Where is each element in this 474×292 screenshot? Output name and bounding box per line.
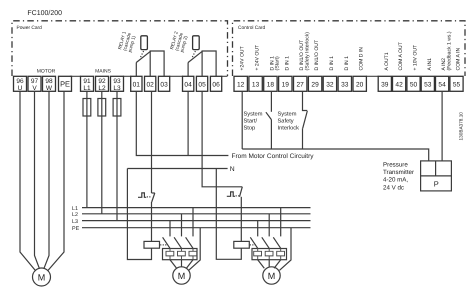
- contactor K2 actuator symbol: [227, 192, 235, 196]
- svg-text:4-20 mA,: 4-20 mA,: [383, 177, 408, 184]
- svg-text:130BA378.10: 130BA378.10: [458, 112, 463, 141]
- node System Safety Interlock label: [278, 112, 300, 132]
- svg-text:(Feedback 1 ws.): (Feedback 1 ws.): [446, 31, 452, 70]
- wire motor U: [20, 91, 36, 271]
- svg-text:D IN1/O OUT: D IN1/O OUT: [314, 40, 320, 71]
- terminal 05: [196, 76, 207, 91]
- terminal 92/L2: [96, 76, 109, 92]
- overload OL1 heater 2: [178, 248, 186, 260]
- svg-text:+24V OUT: +24V OUT: [240, 46, 246, 70]
- wire PE drop to motor M2: [189, 228, 201, 271]
- svg-text:03: 03: [160, 81, 168, 88]
- wire terminal 27 upper: [303, 91, 308, 110]
- relay 2 coil: [193, 36, 200, 50]
- svg-text:97: 97: [31, 78, 39, 85]
- wire mains L1 to fuse: [86, 91, 88, 207]
- svg-text:MOTOR: MOTOR: [37, 69, 56, 75]
- wire terminal 12 down to +24V bar: [241, 91, 243, 149]
- svg-text:From Motor Control Circuitry: From Motor Control Circuitry: [232, 153, 315, 160]
- svg-text:M: M: [268, 271, 276, 281]
- svg-text:Transmitter: Transmitter: [383, 169, 414, 176]
- terminal 96/U: [14, 76, 27, 92]
- svg-text:53: 53: [424, 81, 432, 88]
- wire OL2 pole2 to motor M3: [268, 260, 270, 267]
- svg-text:54: 54: [438, 81, 446, 88]
- svg-text:PE: PE: [60, 80, 70, 89]
- svg-text:+ 24V OUT: + 24V OUT: [255, 45, 261, 71]
- svg-text:M: M: [178, 271, 186, 281]
- contactor K1 contact: [152, 193, 155, 241]
- svg-text:V: V: [32, 85, 37, 92]
- svg-text:A IN1: A IN1: [427, 58, 433, 71]
- overload relay OL1 box: [163, 249, 198, 260]
- svg-text:29: 29: [311, 81, 319, 88]
- svg-text:D IN 1: D IN 1: [344, 56, 350, 71]
- terminal PE: [59, 76, 72, 91]
- svg-text:32: 32: [326, 81, 334, 88]
- svg-text:01: 01: [133, 81, 141, 88]
- svg-text:PE: PE: [72, 226, 80, 232]
- control terminal 55: [450, 76, 463, 91]
- fuse F1: [83, 99, 91, 117]
- control terminal 27: [294, 76, 307, 91]
- wire L1 drop to K1 pole 3: [192, 208, 194, 237]
- motor M1: [33, 268, 51, 286]
- svg-text:A OUT1: A OUT1: [384, 52, 390, 70]
- svg-text:42: 42: [395, 81, 403, 88]
- svg-text:COM A OUT: COM A OUT: [398, 42, 404, 70]
- overload OL1 heater 3: [189, 248, 197, 260]
- fuse F2: [98, 99, 106, 117]
- wire L3 drop to K2 pole 1: [257, 221, 259, 237]
- bus L1: [82, 207, 311, 209]
- bus L2: [82, 213, 311, 215]
- svg-text:55: 55: [453, 81, 461, 88]
- system start/stop switch arm: [266, 112, 272, 119]
- svg-text:D IN 1: D IN 1: [329, 56, 335, 71]
- wire relay1 NO 02 down to contactor K1: [151, 91, 153, 193]
- terminal 04: [183, 76, 194, 91]
- relay 1 contact arm: [136, 51, 150, 62]
- wire K1 coil return to N: [127, 169, 151, 260]
- contactor K1 actuator dotted link: [147, 196, 151, 198]
- relay 2 coil dotted link: [192, 51, 195, 58]
- wire OL1 pole1 to motor M2: [170, 260, 177, 269]
- wire relay2 common 04 down: [187, 91, 189, 155]
- svg-text:System: System: [244, 112, 263, 118]
- svg-text:L2: L2: [98, 85, 106, 92]
- wire K2 coil return to N: [216, 169, 241, 260]
- svg-text:91: 91: [83, 78, 91, 85]
- wire relay2 NO 05 down and across to contactor K2: [202, 91, 242, 187]
- control terminal 18: [264, 76, 277, 91]
- svg-text:(Start): (Start): [275, 56, 281, 70]
- contactor K2 coil: [234, 241, 250, 248]
- wire OL2 pole3 to motor M3: [274, 260, 281, 269]
- bus L3: [82, 220, 311, 222]
- wire mains L3: [116, 91, 118, 220]
- contactor K1 coil: [144, 241, 160, 248]
- svg-text:M: M: [38, 273, 46, 283]
- card bottom segment between 93 and 01: [123, 75, 131, 77]
- relay 1 label (RELAY 1 cascade pump 1): [117, 30, 137, 52]
- control terminal 32: [323, 76, 336, 91]
- contactor K1 actuator symbol: [138, 193, 146, 197]
- wire PE drop to motor M3: [280, 228, 292, 271]
- K1 pole 3 contact: [186, 237, 193, 248]
- svg-text:98: 98: [45, 78, 53, 85]
- K1 pole 2 contact: [174, 237, 181, 248]
- wire terminal 01 to relay 1 arm: [135, 63, 137, 77]
- terminal 91/L1: [81, 76, 94, 92]
- overload OL2 heater 2: [265, 248, 273, 260]
- wire motor PE: [48, 91, 65, 271]
- svg-text:Interlock: Interlock: [278, 125, 300, 132]
- svg-text:(Safety Interlock): (Safety Interlock): [304, 32, 310, 71]
- terminal 03: [158, 76, 169, 91]
- svg-text:Control Card: Control Card: [238, 25, 266, 31]
- svg-text:18: 18: [267, 81, 275, 88]
- svg-text:Safety: Safety: [278, 118, 294, 125]
- svg-text:COM D IN: COM D IN: [359, 47, 365, 71]
- wire OL2 pole1 to motor M3: [258, 260, 265, 269]
- K2 coil to overload dotted link: [250, 244, 256, 246]
- svg-text:05: 05: [198, 81, 206, 88]
- svg-text:06: 06: [212, 81, 220, 88]
- control terminal 29: [308, 76, 321, 91]
- control terminal 42: [393, 76, 406, 91]
- wire L2 drop to K1 pole 2: [181, 214, 183, 237]
- svg-text:39: 39: [381, 81, 389, 88]
- terminal 93/L3: [111, 76, 124, 92]
- svg-text:Pressure: Pressure: [383, 162, 408, 169]
- svg-text:Power Card: Power Card: [17, 25, 43, 31]
- control terminal 53: [421, 76, 434, 91]
- terminal 98/W: [43, 76, 56, 92]
- svg-text:Stop: Stop: [244, 126, 256, 132]
- svg-text:02: 02: [147, 81, 155, 88]
- K2 pole 1 contact: [250, 237, 257, 248]
- wire L3 drop to K1 pole 1: [169, 221, 171, 237]
- wire terminal 18 lower: [270, 120, 272, 149]
- wire relay1 common 01 down to motor control circuitry line: [136, 91, 228, 155]
- wire terminal 27 lower: [302, 128, 304, 149]
- svg-text:W: W: [46, 85, 53, 92]
- fuse F3: [113, 99, 121, 117]
- svg-text:MAINS: MAINS: [95, 69, 112, 75]
- svg-text:12: 12: [237, 81, 245, 88]
- svg-text:33: 33: [341, 81, 349, 88]
- relay 1 coil dotted link: [140, 51, 143, 58]
- pressure transmitter P: [421, 161, 452, 191]
- wire mains L2: [101, 91, 103, 214]
- svg-text:93: 93: [113, 78, 121, 85]
- card bottom segment between 03 and 04: [169, 75, 183, 77]
- wire N line: [127, 168, 227, 170]
- svg-text:19: 19: [282, 81, 290, 88]
- terminal 02: [145, 76, 156, 91]
- control terminal 19: [279, 76, 292, 91]
- wire OL1 pole3 to motor M2: [186, 260, 193, 269]
- svg-text:L1: L1: [72, 206, 78, 212]
- control terminal 13: [249, 76, 262, 91]
- relay 2 fixed contacts 05-06: [202, 51, 216, 76]
- K1 pole 1 contact: [163, 237, 170, 248]
- svg-text:24 V dc: 24 V dc: [383, 184, 404, 191]
- svg-text:+ 10V OUT: + 10V OUT: [413, 45, 419, 71]
- wire OL1 pole2 to motor M2: [181, 260, 183, 267]
- card bottom segment between 20 and 39: [366, 75, 379, 77]
- control terminal 12: [234, 76, 247, 91]
- svg-text:04: 04: [184, 81, 192, 88]
- card bottom segment between PE and 91: [70, 75, 81, 77]
- relay 1 coil: [141, 36, 148, 50]
- svg-text:96: 96: [16, 78, 24, 85]
- terminal 06: [210, 76, 221, 91]
- bus PE: [82, 227, 311, 229]
- svg-text:27: 27: [297, 81, 305, 88]
- svg-text:92: 92: [98, 78, 106, 85]
- node System Start/Stop label: [244, 112, 263, 132]
- svg-text:L1: L1: [83, 85, 91, 92]
- wire terminal 04 to relay 2 arm: [187, 63, 189, 77]
- svg-text:L2: L2: [72, 212, 78, 218]
- svg-text:13: 13: [252, 81, 260, 88]
- motor M3: [263, 267, 280, 284]
- wire terminal 54 down to pressure transmitter: [441, 91, 443, 161]
- system safety interlock switch arm: [303, 111, 308, 128]
- svg-text:FC100/200: FC100/200: [27, 9, 62, 17]
- wire L1 drop to K2 pole 3: [280, 208, 282, 237]
- svg-text:50: 50: [410, 81, 418, 88]
- control terminal 54: [436, 76, 449, 91]
- terminal 01: [131, 76, 142, 91]
- K1 coil to overload dotted link: [160, 244, 166, 246]
- svg-text:P: P: [434, 180, 439, 189]
- Power Card dashed border: [12, 21, 228, 76]
- overload OL1 heater 1: [166, 248, 174, 260]
- svg-text:L3: L3: [113, 85, 121, 92]
- wire terminal 18 upper: [270, 91, 272, 112]
- overload OL2 heater 3: [277, 248, 285, 260]
- contactor K2 actuator dotted link: [236, 195, 240, 197]
- wire +24V bar to pressure transmitter: [242, 149, 429, 161]
- motor M2: [173, 267, 190, 284]
- svg-text:N: N: [230, 166, 235, 173]
- svg-text:System: System: [278, 112, 297, 118]
- K2 pole 3 contact: [273, 237, 280, 248]
- wire motor V: [35, 91, 40, 268]
- svg-text:20: 20: [356, 81, 364, 88]
- svg-text:U: U: [18, 85, 23, 92]
- relay 2 contact arm: [188, 51, 202, 62]
- svg-text:L3: L3: [72, 219, 78, 225]
- svg-text:Start/: Start/: [244, 118, 258, 125]
- Control Card dashed border: [233, 21, 466, 76]
- overload OL2 heater 1: [254, 248, 262, 260]
- svg-text:COM A IN: COM A IN: [456, 48, 462, 71]
- control terminal 20: [353, 76, 366, 91]
- wire L2 drop to K2 pole 2: [268, 214, 270, 237]
- overload relay OL2 box: [252, 249, 287, 260]
- control terminal 33: [338, 76, 351, 91]
- card bottom segment right of 06: [221, 75, 227, 77]
- K2 pole 2 contact: [262, 237, 269, 248]
- node Pressure Transmitter label: [383, 162, 414, 192]
- relay 2 label (RELAY 2 cascade pump 2): [169, 30, 189, 52]
- terminal 97/V: [28, 76, 41, 92]
- wire motor W: [44, 91, 49, 268]
- contactor K2 contact: [240, 187, 243, 242]
- relay 1 fixed contacts 02-03: [150, 51, 164, 76]
- control terminal 39: [378, 76, 391, 91]
- svg-text:D IN 1: D IN 1: [284, 56, 290, 71]
- control terminal 50: [407, 76, 420, 91]
